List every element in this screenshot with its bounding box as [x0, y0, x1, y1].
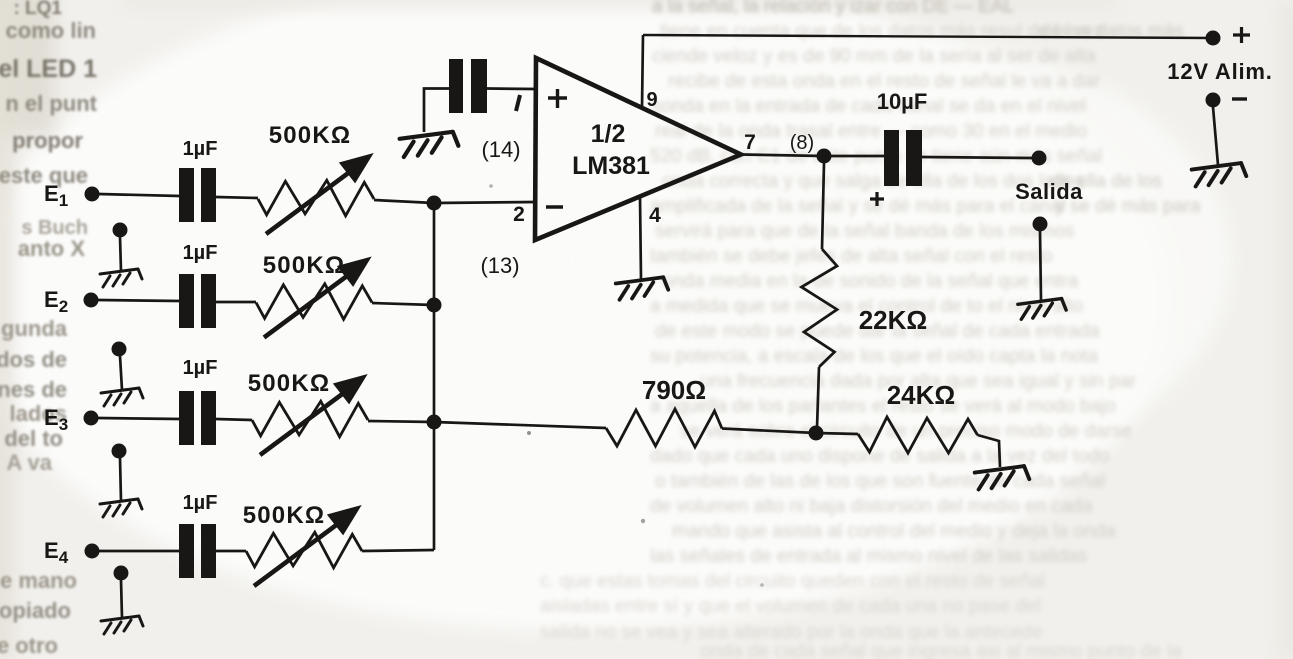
junction node feedback: [809, 426, 824, 441]
junction node bus/E2: [427, 298, 442, 313]
svg-text:como lin: como lin: [6, 18, 96, 43]
op-amp U1 1/2 LM381: [535, 58, 741, 240]
plus symbol C6 polarity: [870, 192, 884, 206]
svg-text:propor: propor: [12, 128, 83, 153]
wire P4 to summing bus corner: [362, 550, 434, 551]
wire E4 terminal to C4: [99, 550, 180, 553]
svg-text:sonda en la entrada de cada ca: sonda en la entrada de cada canal se da …: [652, 96, 1086, 117]
capacitor C2 1uF: [179, 274, 216, 328]
potentiometer P3 500K: [252, 376, 368, 455]
svg-text:amplificada de la señal y se d: amplificada de la señal y se dé más para…: [650, 196, 1065, 217]
wire C2 to P2: [216, 301, 256, 304]
ground between E2 and E3: [101, 342, 143, 407]
wire bus to R2 (from E3 line): [434, 422, 606, 428]
node Salida terminal: [1032, 151, 1047, 166]
svg-text:22KΩ: 22KΩ: [859, 305, 928, 335]
wire output node to R1: [822, 163, 824, 249]
svg-text:se verá sobre el circuito de u: se verá sobre el circuito de un preciso …: [680, 421, 1132, 442]
resistor R2 790 ohm: [606, 409, 722, 447]
svg-text:(13): (13): [480, 253, 519, 278]
plus input symbol: [548, 89, 567, 108]
svg-text:tiene en cuenta que de los dat: tiene en cuenta que de los datos más res…: [660, 21, 1104, 42]
page bleed-through text, right column (decorative): [540, 0, 1182, 659]
svg-text:1µF: 1µF: [183, 138, 218, 160]
wire C4 to P4: [216, 550, 246, 553]
ground at pin 4: [616, 277, 669, 300]
svg-text:gunda: gunda: [1, 316, 68, 341]
svg-text:10µF: 10µF: [877, 89, 928, 114]
wire C5 to ground corner: [424, 89, 449, 133]
potentiometer P1 500K: [258, 155, 374, 234]
svg-text:mando que asista al control de: mando que asista al control del medio y …: [672, 521, 1116, 542]
resistor R1 22K vertical: [802, 249, 838, 367]
tiny ink specks (decorative): [489, 184, 764, 587]
pin 9 number: [646, 89, 657, 111]
svg-text:c. que estas tomas del circui: c. que estas tomas del circuito queden c…: [540, 571, 1045, 592]
svg-text:e mano: e mano: [0, 568, 77, 593]
label E4: [44, 538, 69, 567]
label 12V Alim.: [1167, 59, 1272, 84]
svg-text:500KΩ: 500KΩ: [269, 122, 352, 149]
svg-text:onda media en la de sonido de: onda media en la de sonido de la señal q…: [662, 271, 1079, 292]
pin 2 number: [513, 203, 525, 226]
svg-text:nes de: nes de: [0, 377, 67, 402]
value label 790Ohm (R2): [642, 375, 706, 405]
pin 1 mark: [516, 95, 520, 111]
svg-text:ciende veloz y es de 90 mm de: ciende veloz y es de 90 mm de la sería a…: [652, 46, 1096, 67]
wire pin 7 to output node: [741, 155, 824, 157]
wire junction to R3: [816, 433, 858, 434]
svg-text:7: 7: [744, 131, 756, 154]
plus symbol 12V: [1233, 27, 1250, 43]
svg-text:dado que cada uno dispone de s: dado que cada uno dispone de salida a la…: [650, 446, 1110, 467]
svg-text:9: 9: [646, 89, 657, 111]
node E2 input terminal: [84, 293, 99, 308]
value label 1uF (C4): [183, 492, 218, 514]
capacitor C4 1uF: [179, 524, 216, 578]
svg-text:1µF: 1µF: [183, 492, 218, 514]
value label 1uF (C3): [183, 357, 218, 379]
label LM381: [572, 152, 650, 180]
resistor R3 24K: [858, 417, 978, 453]
label Salida: [1015, 179, 1083, 204]
junction node bus/E1: [427, 196, 442, 211]
node V- terminal: [1206, 93, 1221, 108]
ground at R3: [975, 466, 1030, 489]
value label 1uF (C1): [183, 138, 218, 160]
ground between E3 and E4: [100, 444, 142, 518]
value label 500KOhm (P1): [269, 122, 352, 149]
wire C5 to op-amp pin 1: [487, 87, 536, 90]
wire E1 terminal to C1: [99, 194, 180, 196]
svg-text:opiado: opiado: [0, 598, 71, 623]
capacitor C1 1uF: [179, 168, 216, 222]
node E4 input terminal: [85, 544, 100, 559]
pin label (8): [790, 132, 814, 154]
ground below E4: [101, 566, 143, 635]
ground between E1 and E2: [100, 223, 142, 288]
darker bleed accents (decorative): [652, 0, 1201, 217]
svg-text:salida no se vea y sea alterad: salida no se vea y sea alterado por la o…: [540, 622, 1043, 643]
wire Salida ground stem: [1040, 231, 1041, 300]
svg-text:las señales de entrada al mism: las señales de entrada al mismo nivel de…: [650, 546, 1087, 567]
svg-text:500KΩ: 500KΩ: [248, 370, 331, 397]
wire C6 to Salida terminal: [922, 157, 1032, 158]
svg-text:24KΩ: 24KΩ: [887, 380, 956, 410]
wire V- to ground: [1213, 107, 1218, 165]
svg-text:(8): (8): [790, 132, 814, 154]
pin label (13): [480, 253, 519, 278]
value label 10uF (C6): [877, 89, 928, 114]
label 1/2: [591, 120, 626, 148]
potentiometer P2 500K: [256, 259, 372, 338]
value label 1uF (C2): [183, 242, 218, 264]
label E2: [44, 287, 68, 316]
capacitor C5 (pin 1 bypass): [449, 59, 487, 113]
pin 4 number: [649, 204, 661, 227]
svg-text:790Ω: 790Ω: [642, 375, 706, 405]
minus input symbol: [546, 205, 563, 208]
svg-text:A va: A va: [6, 450, 52, 475]
wire bus to op-amp pin 2: [434, 202, 536, 203]
wire P3 to summing bus: [368, 421, 434, 422]
wire R1 to feedback junction: [817, 367, 819, 428]
wire P1 to summing bus: [374, 200, 434, 203]
wire output node to C6: [824, 155, 884, 158]
label E1: [44, 181, 68, 210]
svg-text:de volumen alto ni baja distor: de volumen alto ni baja distorsión del m…: [650, 496, 1093, 517]
node E3 input terminal: [84, 411, 99, 426]
svg-text:1/2: 1/2: [591, 120, 626, 148]
wire R2 to feedback junction: [722, 429, 816, 434]
node V+ terminal: [1206, 31, 1221, 46]
ground at Salida: [1018, 299, 1066, 320]
svg-text:500KΩ: 500KΩ: [243, 502, 326, 529]
capacitor C3 1uF: [179, 391, 216, 445]
value label 500KOhm (P2): [263, 252, 346, 279]
svg-text:anto X: anto X: [18, 236, 86, 261]
wire E3 terminal to C3: [98, 418, 180, 419]
minus symbol 12V: [1232, 97, 1247, 100]
value label 500KOhm (P3): [248, 370, 331, 397]
svg-text:12V Alim.: 12V Alim.: [1167, 59, 1272, 84]
svg-text:(14): (14): [481, 137, 520, 162]
ground at C5: [400, 132, 459, 157]
svg-text:: LQ1: : LQ1: [13, 0, 62, 19]
V+ supply rail wire: [643, 35, 1213, 38]
value label 500KOhm (P4): [243, 502, 326, 529]
wire pin 4 to ground: [640, 197, 641, 279]
svg-text:servirá para que de la señal b: servirá para que de la señal banda de lo…: [655, 221, 1074, 242]
wire R3 to ground: [978, 435, 1001, 467]
svg-text:real de la onda trasal entre —: real de la onda trasal entre — como 30 e…: [655, 121, 1087, 142]
wire C3 to P3: [216, 419, 252, 420]
svg-text:n el punt: n el punt: [5, 91, 97, 116]
svg-text:también se debe jefes de alta: también se debe jefes de alta señal con …: [650, 246, 1052, 267]
potentiometer P4 500K: [246, 507, 362, 586]
summing bus vertical wire: [433, 203, 436, 550]
svg-text:su potencia, a escala de los q: su potencia, a escala de los que el oído…: [650, 346, 1098, 367]
node Salida ground terminal: [1033, 217, 1048, 232]
svg-text:a la señal, la relación y izar: a la señal, la relación y izar con DE — …: [652, 0, 1014, 17]
svg-text:4: 4: [649, 204, 661, 227]
label E3: [44, 405, 68, 434]
svg-text:el LED 1: el LED 1: [0, 55, 97, 83]
svg-text:Salida: Salida: [1015, 179, 1083, 204]
pin label (14): [481, 137, 520, 162]
svg-text:1µF: 1µF: [183, 242, 218, 264]
capacitor C6 10uF: [884, 130, 922, 186]
svg-text:onda de cada señal que ingresa: onda de cada señal que ingresa así al mi…: [700, 641, 1182, 659]
ground at V-: [1192, 163, 1247, 186]
node output junction: [817, 149, 832, 164]
svg-text:1µF: 1µF: [183, 357, 218, 379]
wire E2 terminal to C2: [98, 300, 180, 301]
page bleed-through text, left column (decorative): [0, 0, 98, 658]
value label 24KOhm (R3): [887, 380, 956, 410]
svg-text:500KΩ: 500KΩ: [263, 252, 346, 279]
wire pin 9 to V+ rail: [642, 35, 643, 108]
wire P2 to summing bus: [372, 303, 434, 305]
wire C1 to P1: [216, 197, 258, 198]
svg-text:LM381: LM381: [572, 152, 650, 180]
junction node bus/E3: [427, 415, 442, 430]
svg-text:o también de las de los que so: o también de las de los que son fuente d…: [655, 471, 1105, 492]
pin 7 number: [744, 131, 756, 154]
svg-text:2: 2: [513, 203, 525, 226]
svg-text:aisladas entre sí y que el vol: aisladas entre sí y que el volumen de ca…: [540, 596, 1041, 617]
node E1 input terminal: [85, 187, 100, 202]
svg-text:e otro: e otro: [0, 633, 58, 658]
svg-text:dos de: dos de: [0, 347, 67, 372]
value label 22KOhm (R1): [859, 305, 928, 335]
svg-text:a aquella de los parlantes el: a aquella de los parlantes el resto se v…: [650, 396, 1116, 417]
